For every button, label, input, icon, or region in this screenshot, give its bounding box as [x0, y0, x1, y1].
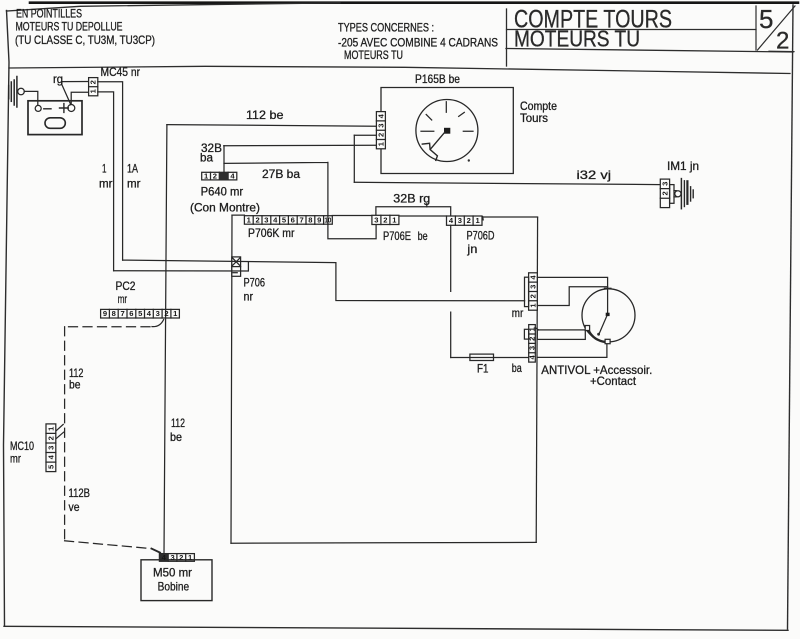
- svg-text:mr: mr: [512, 306, 524, 320]
- svg-text:mr: mr: [99, 177, 113, 191]
- page right border: [788, 5, 794, 629]
- wire 112 be vertical (down to M50): [164, 125, 167, 554]
- svg-text:P706D: P706D: [467, 229, 495, 243]
- page number diagonal 5/2: [758, 6, 796, 50]
- connector P706D: [447, 216, 483, 225]
- svg-text:2: 2: [383, 215, 387, 224]
- wire P640 pin3 up to 32B: [223, 146, 225, 173]
- wire net 1 : joins net 1A right of P706: [114, 262, 249, 271]
- wire 32B ba to P165B pin1: [224, 144, 377, 147]
- connector mr shell: [525, 277, 529, 306]
- connector MC45: [89, 78, 98, 96]
- IM1 shell: [670, 185, 674, 204]
- svg-text:MOTEURS TU: MOTEURS TU: [344, 48, 403, 62]
- svg-text:(TU CLASSE C, TU3M, TU3CP): (TU CLASSE C, TU3M, TU3CP): [15, 33, 155, 47]
- big block bottom edge: [231, 541, 536, 544]
- svg-text:8: 8: [308, 215, 312, 224]
- switch center hub: [606, 313, 610, 316]
- big block outline top edge: [232, 215, 538, 217]
- ground terminal circle: [18, 88, 25, 95]
- switch contact square upper-left: [585, 326, 589, 331]
- svg-text:mr: mr: [118, 292, 128, 306]
- connector mr (on big block right edge): [529, 273, 538, 310]
- gauge center hub: [444, 128, 450, 134]
- svg-text:P706K mr: P706K mr: [248, 226, 295, 240]
- wire ground to battery minus: [24, 91, 38, 104]
- gauge ticks: [421, 102, 473, 132]
- page top border line: [30, 1, 798, 4]
- svg-text:P640 mr: P640 mr: [201, 185, 244, 199]
- header separator line: [9, 66, 790, 73]
- svg-text:Bobine: Bobine: [158, 580, 190, 594]
- battery cell oval: [45, 118, 65, 129]
- switch feed bar: [537, 330, 585, 340]
- svg-text:9: 9: [103, 309, 107, 318]
- svg-text:M50 mr: M50 mr: [153, 566, 192, 580]
- svg-text:P706: P706: [244, 276, 266, 290]
- svg-text:mr: mr: [127, 177, 141, 191]
- svg-text:3: 3: [661, 182, 670, 186]
- tick apostrophe after P706D pin1: [482, 217, 485, 220]
- svg-text:+Contact: +Contact: [590, 374, 637, 388]
- svg-text:MC45 nr: MC45 nr: [101, 65, 141, 79]
- svg-text:EN POINTILLES: EN POINTILLES: [16, 7, 82, 21]
- connector P165B (on gauge left edge): [376, 112, 385, 149]
- svg-text:2: 2: [377, 133, 386, 137]
- wire ba pin1 stub: [535, 328, 538, 330]
- wire ba pin4 to switch bottom contact: [537, 344, 607, 358]
- connector P706E: [372, 215, 399, 224]
- svg-text:jn: jn: [466, 242, 477, 256]
- svg-text:2: 2: [255, 215, 259, 224]
- wire mr pin4 to switch center feed: [537, 277, 607, 313]
- ground IM1: [680, 179, 682, 209]
- title box underline under COMPTE TOURS: [507, 29, 757, 31]
- left header box top edge: [7, 3, 341, 11]
- svg-text:3: 3: [170, 553, 174, 562]
- svg-text:i32 vj: i32 vj: [577, 168, 612, 182]
- page left border: [4, 11, 10, 627]
- svg-text:ba: ba: [512, 361, 522, 375]
- gauge circle: [416, 100, 478, 162]
- connector IM1: [660, 179, 669, 208]
- ground (battery, on left border): [9, 77, 17, 108]
- connector P706 (2 pin): [232, 257, 241, 276]
- gauge box (compte tours): [381, 88, 513, 174]
- fuse F1: [470, 354, 494, 360]
- svg-text:2: 2: [529, 294, 538, 298]
- svg-text:2: 2: [179, 553, 183, 562]
- svg-text:2: 2: [89, 80, 98, 84]
- wire vertical junction to i32: [353, 135, 355, 182]
- svg-text:mr: mr: [10, 452, 21, 466]
- svg-text:3: 3: [458, 216, 462, 225]
- svg-text:5: 5: [759, 4, 773, 34]
- svg-text:ve: ve: [69, 500, 80, 514]
- battery minus terminal: [35, 105, 41, 111]
- wire 32B rg bracket P706E pin3 to P706D pin4: [376, 207, 451, 216]
- wire net 1A : to P706 and on to ignition feed: [123, 260, 525, 301]
- connector ba: [529, 325, 536, 363]
- svg-text:2: 2: [776, 28, 789, 55]
- svg-text:3: 3: [528, 346, 537, 350]
- wire mr pin1 to switch top contact: [537, 287, 607, 306]
- svg-text:7: 7: [299, 215, 303, 224]
- switch contact square bottom: [605, 339, 610, 343]
- dashed line (en pointilles) PC2 pin2 to MC10 to M50: [152, 320, 164, 327]
- svg-text:2: 2: [467, 216, 471, 225]
- svg-text:1: 1: [102, 162, 107, 176]
- svg-text:be: be: [418, 229, 428, 243]
- svg-text:P165B be: P165B be: [415, 72, 460, 86]
- big block right edge: [536, 218, 537, 543]
- switch lever: [599, 316, 607, 335]
- wire i32 vj to IM1: [354, 182, 660, 184]
- wire 27B ba: [224, 162, 376, 238]
- title box page-number divider: [755, 6, 757, 50]
- wire 112 be horizontal to P165B pin3: [167, 125, 377, 127]
- battery: [28, 101, 82, 135]
- battery plus terminal: [60, 104, 69, 113]
- svg-text:112: 112: [171, 416, 185, 430]
- title box bottom edge: [506, 49, 793, 53]
- connector M50: [159, 554, 194, 562]
- title box left edge: [506, 9, 508, 66]
- svg-text:2: 2: [46, 436, 55, 440]
- switch top contact tick: [605, 287, 611, 289]
- svg-text:TYPES CONCERNES :: TYPES CONCERNES :: [338, 21, 434, 35]
- svg-text:3: 3: [46, 446, 55, 450]
- svg-text:ba: ba: [200, 151, 213, 165]
- svg-text:3: 3: [264, 215, 268, 224]
- svg-text:32B rg: 32B rg: [393, 192, 430, 206]
- dash in P706 bottom cell: [233, 272, 237, 274]
- svg-text:2: 2: [661, 191, 670, 195]
- svg-text:IM1 jn: IM1 jn: [667, 159, 699, 173]
- ignition switch ANTIVOL circle: [582, 289, 635, 342]
- svg-text:MOTEURS TU: MOTEURS TU: [514, 26, 640, 52]
- wire P706D pin4 down (with crossing gap): [450, 225, 452, 357]
- svg-text:8: 8: [112, 309, 116, 318]
- svg-text:112B: 112B: [69, 486, 91, 500]
- svg-text:9: 9: [317, 215, 321, 224]
- wire 1A nr : MC45 pin2 right then down: [98, 82, 123, 260]
- underline under 2: [769, 50, 794, 52]
- dashed leader to MC10: [56, 424, 63, 438]
- connector PC2: [101, 309, 180, 318]
- svg-text:27B ba: 27B ba: [262, 167, 300, 181]
- svg-text:be: be: [170, 430, 182, 444]
- svg-text:be: be: [69, 378, 81, 392]
- big block left edge: [231, 215, 232, 543]
- svg-text:6: 6: [129, 309, 133, 318]
- svg-text:112 be: 112 be: [246, 108, 284, 122]
- page bottom border: [4, 626, 788, 630]
- svg-text:3: 3: [374, 215, 378, 224]
- svg-text:6: 6: [291, 215, 295, 224]
- connector MC10: [46, 424, 56, 472]
- wire to fuse F1 (passes through fuse): [451, 357, 529, 359]
- svg-text:(Con Montre): (Con Montre): [190, 201, 260, 215]
- svg-text:F1: F1: [477, 362, 489, 376]
- box M50 Bobine: [141, 560, 212, 601]
- svg-text:P706E: P706E: [383, 229, 411, 243]
- connector P640 (Con Montre): [202, 172, 237, 180]
- wire rg : battery + to MC45 pin 2: [62, 82, 89, 105]
- svg-text:2: 2: [164, 309, 168, 318]
- X mark in P706 top cell: [233, 258, 240, 265]
- svg-text:3: 3: [529, 285, 538, 289]
- svg-text:2: 2: [213, 172, 217, 181]
- jumper P165B pin2: [354, 134, 376, 136]
- svg-text:7: 7: [120, 309, 124, 318]
- gauge needle: [422, 132, 445, 160]
- IM1 stubs and eyelet: [674, 191, 676, 197]
- svg-text:3: 3: [377, 123, 386, 127]
- svg-text:PC2: PC2: [116, 279, 136, 293]
- connector ba shell: [524, 329, 528, 339]
- wire battery + to MC45 pin 1: [71, 92, 88, 104]
- gauge speck: [468, 159, 470, 161]
- connector P706K: [244, 216, 332, 225]
- svg-text:nr: nr: [244, 290, 254, 304]
- leader tick 32B rg: [426, 204, 428, 207]
- svg-text:2: 2: [528, 337, 537, 341]
- svg-text:10: 10: [324, 215, 331, 224]
- svg-text:rg: rg: [53, 72, 63, 86]
- svg-text:Tours: Tours: [520, 111, 548, 125]
- switch wiper arc: [589, 331, 606, 342]
- svg-text:3: 3: [156, 309, 160, 318]
- wire 1 mr : MC45 pin1 right then down: [98, 92, 114, 271]
- svg-text:MOTEURS TU DEPOLLUE: MOTEURS TU DEPOLLUE: [16, 20, 123, 34]
- svg-text:1A: 1A: [127, 162, 138, 176]
